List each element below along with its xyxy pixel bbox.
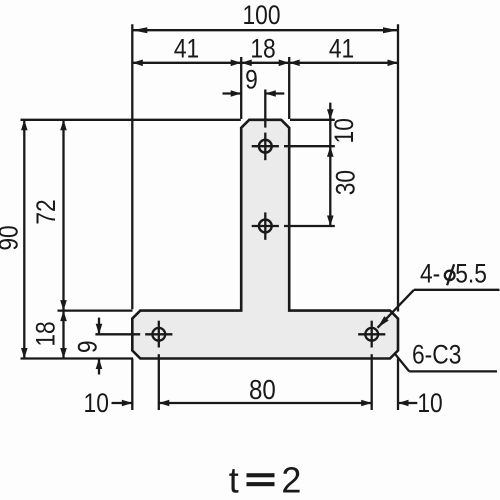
dimension 41 left [132,35,241,66]
extension line left edge vertical [131,24,133,309]
dimension 9 left (hole BL to bottom) [74,318,103,375]
hole T1 (top stem hole) [252,133,279,161]
svg-text:5.5: 5.5 [455,260,487,289]
dimension 9 top (stem edge to hole centerline) [223,66,285,97]
svg-text:4-: 4- [420,260,440,289]
leader 6-C3 (chamfer callout) [395,341,497,371]
dimension 10 bottom left [84,389,133,418]
dimension 41 right [289,35,398,66]
svg-text:18: 18 [32,321,61,346]
extension line bottom left edge [131,359,133,411]
svg-text:10: 10 [417,389,442,418]
svg-text:41: 41 [329,35,354,64]
extension line hole T1 centerline right [284,145,335,147]
svg-text:30: 30 [332,170,361,195]
extension line bar top left (y=310.6) [58,309,133,311]
extension line hole BL vertical [158,354,160,410]
dimension 72 (top to bar) [33,120,67,311]
extension line stem top right (y=119.8) [290,119,335,121]
extension line stem right vertical [288,57,290,119]
svg-text:80: 80 [249,373,276,405]
svg-text:10: 10 [331,118,360,143]
extension line bottom right edge [397,359,399,411]
dimension 90 (total height) [0,120,28,359]
svg-text:2: 2 [281,459,301,500]
extension line plate top left (y=119.8) [21,119,241,121]
hole BL (bottom-left hole) [145,321,172,348]
hole T2 (lower stem hole) [252,212,279,239]
svg-text:41: 41 [174,35,199,64]
dimension 18 left (bar height) [32,311,67,359]
svg-text:6-C3: 6-C3 [412,341,461,370]
extension line hole BR vertical [371,354,373,410]
dimension 18 (stem width) [241,35,289,66]
extension line stem centerline top [264,90,266,128]
extension line hole T2 centerline right [284,225,335,227]
svg-text:9: 9 [245,66,258,95]
extension line right edge vertical [397,24,399,311]
dimension 100 [132,2,398,34]
dimension 10 right (stem top to hole T1) [327,103,360,226]
svg-text:90: 90 [0,225,24,250]
hole BR (bottom-right hole) [358,321,385,348]
extension line stem left vertical [240,57,242,119]
leader 4-phi5.5 (hole callout) [378,260,500,328]
extension line plate bottom left (y=358.5) [21,357,134,359]
svg-text:t: t [229,459,239,500]
svg-text:72: 72 [33,199,62,224]
svg-text:100: 100 [242,2,280,31]
extension line hole BL centerline left [95,333,140,335]
svg-text:9: 9 [74,340,103,353]
note t=2 (thickness) [229,459,302,500]
dimension 10 bottom right [398,389,443,418]
dimension 80 (bottom holes) [159,373,372,406]
dimension 30 right (hole T1 to hole T2) [327,170,361,226]
svg-text:18: 18 [250,35,275,64]
svg-text:10: 10 [84,389,109,418]
T-plate outline with 6 chamfers [132,120,398,359]
